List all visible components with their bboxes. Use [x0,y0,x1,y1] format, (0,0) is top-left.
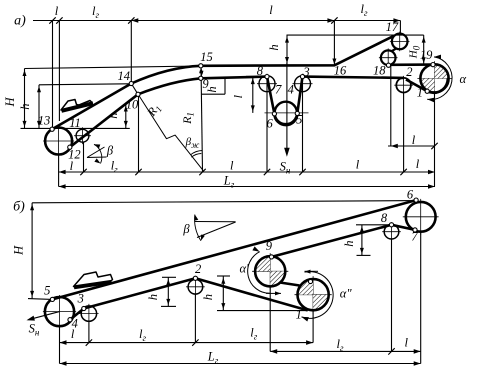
svg-text:h: h [267,44,281,50]
svg-text:14: 14 [117,69,130,83]
svg-text:б): б) [13,200,25,215]
svg-text:6: 6 [407,188,414,202]
svg-text:l: l [356,158,360,172]
svg-text:2: 2 [406,65,412,79]
svg-text:h: h [106,112,120,118]
svg-text:l: l [405,336,409,350]
svg-text:l: l [416,157,420,171]
svg-text:13: 13 [38,114,51,128]
svg-text:5: 5 [44,283,50,297]
svg-text:l: l [71,327,75,341]
svg-text:19: 19 [420,48,433,62]
svg-text:α": α" [340,287,353,301]
svg-text:l: l [70,159,74,173]
svg-text:15: 15 [200,50,213,64]
svg-text:l: l [269,3,273,17]
svg-text:8: 8 [257,64,264,78]
svg-text:h: h [201,294,215,300]
svg-text:3: 3 [302,65,309,79]
svg-text:3: 3 [77,291,84,305]
svg-text:5: 5 [296,113,302,127]
svg-text:1: 1 [296,308,302,322]
svg-text:h: h [205,86,219,92]
svg-text:α': α' [239,262,249,276]
svg-text:1: 1 [417,86,423,100]
svg-text:а): а) [14,14,26,29]
svg-text:l: l [230,159,234,173]
svg-text:h: h [146,294,160,300]
svg-text:18: 18 [373,64,386,78]
svg-text:β: β [106,144,114,158]
svg-text:9: 9 [266,239,273,253]
svg-text:h: h [18,103,32,109]
svg-text:7: 7 [411,229,418,243]
svg-text:11: 11 [69,116,81,130]
svg-text:β: β [182,222,190,236]
svg-text:H: H [12,245,26,256]
svg-text:10: 10 [126,98,139,112]
svg-text:4: 4 [288,83,294,97]
svg-text:2: 2 [195,262,201,276]
svg-text:16: 16 [334,64,347,78]
svg-text:7: 7 [275,83,282,97]
svg-text:8: 8 [381,211,388,225]
svg-text:h: h [342,240,356,246]
svg-text:17: 17 [386,20,399,34]
svg-text:α: α [460,72,467,86]
svg-text:6: 6 [266,117,273,131]
svg-text:l: l [55,4,59,18]
svg-text:H: H [3,97,17,108]
svg-text:l: l [412,133,416,147]
